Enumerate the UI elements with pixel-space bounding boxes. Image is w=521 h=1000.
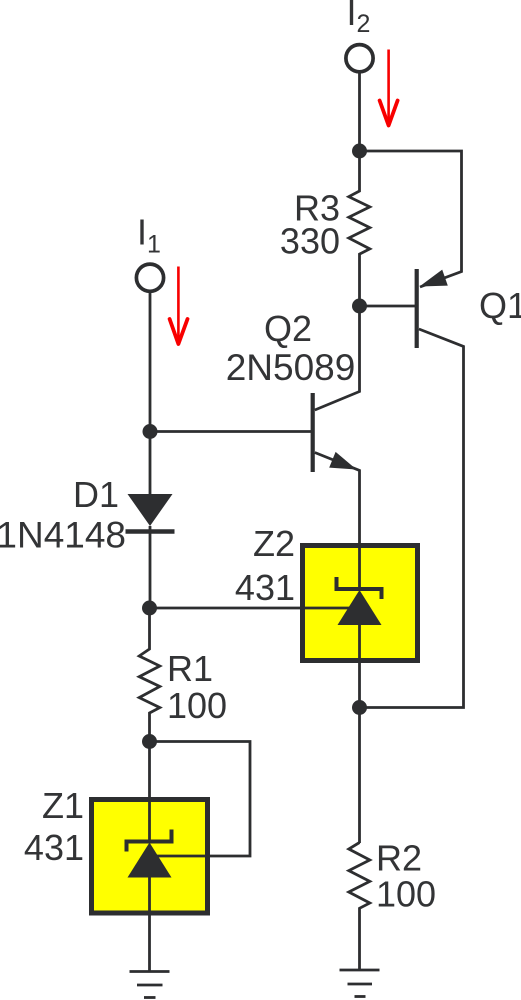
node B junction dot bbox=[142, 601, 157, 616]
wire D1 to node B bbox=[149, 526, 152, 608]
wire node E to Q1 base bbox=[360, 305, 418, 308]
wire node D to Q1 emitter bbox=[360, 151, 462, 287]
transistor Q1 bar bbox=[415, 269, 419, 348]
svg-text:D1: D1 bbox=[73, 474, 119, 515]
terminal I2 circle bbox=[346, 45, 373, 72]
node A junction dot bbox=[143, 424, 158, 439]
TL431 Z2 symbol bbox=[337, 577, 382, 625]
svg-text:Q2: Q2 bbox=[264, 308, 312, 349]
TL431 Z1 symbol bbox=[127, 830, 172, 878]
node E junction dot bbox=[352, 299, 367, 314]
wire Z2 anode to node F bbox=[358, 625, 361, 708]
svg-text:330: 330 bbox=[280, 221, 340, 262]
svg-text:I2: I2 bbox=[347, 0, 371, 38]
svg-text:100: 100 bbox=[376, 874, 436, 915]
resistor R3 bbox=[349, 151, 370, 306]
wire node A to D1 bbox=[149, 432, 152, 496]
diode D1 bbox=[126, 494, 175, 532]
wire node F to R2 bbox=[358, 708, 361, 844]
svg-text:R1: R1 bbox=[167, 648, 213, 689]
wire Z1 anode to ground bbox=[148, 877, 151, 972]
current arrow I1 bbox=[170, 267, 188, 345]
resistor R1 bbox=[139, 608, 160, 742]
wire Q2 emitter to Z2 cathode bbox=[315, 453, 360, 590]
svg-text:1N4148: 1N4148 bbox=[0, 515, 126, 556]
svg-text:2N5089: 2N5089 bbox=[226, 347, 356, 388]
wire node A to Q2 base bbox=[150, 430, 313, 433]
Q2 emitter arrowhead bbox=[329, 452, 356, 470]
terminal I1 circle bbox=[136, 264, 163, 291]
ground left bbox=[130, 972, 170, 998]
svg-text:100: 100 bbox=[167, 685, 227, 726]
wire I2 terminal to node D bbox=[358, 74, 361, 152]
wire Q2 collector to node E bbox=[315, 306, 360, 410]
svg-text:I1: I1 bbox=[137, 212, 161, 259]
svg-text:Z2: Z2 bbox=[253, 523, 295, 564]
node D junction dot bbox=[352, 144, 367, 159]
wire node B to Z2 reference bbox=[150, 607, 352, 610]
resistor R2 bbox=[349, 843, 370, 971]
TL431 Z2 yellow box bbox=[303, 546, 418, 661]
TL431 Z1 yellow box bbox=[92, 800, 208, 914]
Q1 emitter arrowhead bbox=[420, 270, 448, 287]
transistor Q2 bar bbox=[311, 393, 315, 472]
svg-text:431: 431 bbox=[235, 567, 295, 608]
current arrow I2 bbox=[380, 50, 398, 126]
ground right bbox=[340, 970, 380, 997]
wire Q1 collector to node F bbox=[360, 329, 464, 708]
node F junction dot bbox=[352, 700, 367, 715]
wire node C into Z1 cathode bbox=[148, 742, 151, 842]
svg-text:Q1: Q1 bbox=[479, 285, 521, 326]
svg-text:431: 431 bbox=[24, 827, 84, 868]
node C junction dot bbox=[142, 734, 157, 749]
svg-text:R2: R2 bbox=[376, 838, 422, 879]
svg-text:Z1: Z1 bbox=[42, 785, 84, 826]
wire node C feedback to Z1 reference bbox=[150, 742, 250, 857]
wire I1 terminal to node A bbox=[149, 293, 152, 432]
